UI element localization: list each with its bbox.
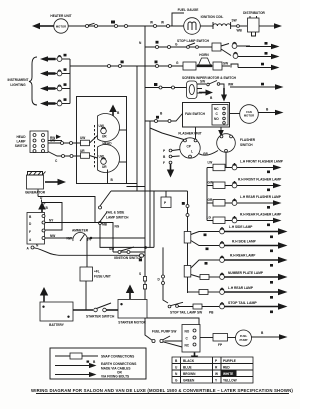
stop tail lamp row <box>168 301 287 315</box>
svg-text:WHITE: WHITE <box>223 372 233 376</box>
fuel pump relay box <box>182 325 200 353</box>
tail and side lamp switch <box>99 191 155 247</box>
svg-text:FLASHER UNIT: FLASHER UNIT <box>178 132 201 136</box>
headlamp connector UW <box>80 135 98 146</box>
svg-text:SWITCH: SWITCH <box>240 143 253 147</box>
svg-text:C: C <box>55 159 58 163</box>
svg-text:F: F <box>163 161 165 165</box>
headlamp lower <box>98 145 127 173</box>
svg-text:SNAP CONNECTIONS: SNAP CONNECTIONS <box>101 355 134 359</box>
svg-text:UW: UW <box>50 139 55 143</box>
svg-text:B: B <box>163 155 166 159</box>
svg-text:A: A <box>27 247 30 251</box>
wire flasher feed bus <box>206 168 208 221</box>
svg-text:BROWN: BROWN <box>183 372 196 376</box>
svg-text:HEATER UNIT: HEATER UNIT <box>50 14 71 18</box>
earth arrow heater <box>32 23 54 29</box>
control box <box>27 213 45 245</box>
svg-text:G: G <box>175 43 178 47</box>
svg-text:UR: UR <box>102 165 107 169</box>
wire switch RW <box>48 135 62 141</box>
svg-text:YELLOW: YELLOW <box>223 379 237 383</box>
svg-text:VIA FIXING BOLTS: VIA FIXING BOLTS <box>101 375 129 379</box>
svg-text:NC: NC <box>185 344 190 348</box>
svg-text:MB: MB <box>102 223 108 227</box>
instrument lighting brace <box>8 57 37 105</box>
svg-text:NO: NO <box>185 330 190 334</box>
headlamp connector UR <box>80 149 98 159</box>
wire heater feed <box>68 21 145 28</box>
wire coil output arrow <box>259 23 282 29</box>
svg-text:AMMETER: AMMETER <box>72 229 89 233</box>
wire V3 <box>144 191 154 249</box>
svg-text:FAN SWITCH: FAN SWITCH <box>185 112 206 116</box>
fuel pump <box>228 330 288 346</box>
wire stop fork <box>221 44 231 56</box>
svg-text:HEAD: HEAD <box>16 135 26 139</box>
fuse F2 <box>184 260 219 277</box>
svg-text:NC: NC <box>214 107 219 111</box>
svg-text:B: B <box>117 111 120 115</box>
svg-text:GW: GW <box>208 181 214 185</box>
horn row <box>137 53 230 70</box>
instrument lamp 2 <box>40 68 70 76</box>
earth arrow headlamp <box>109 105 120 117</box>
svg-text:FUEL PUMP SW: FUEL PUMP SW <box>152 330 176 334</box>
svg-text:W: W <box>215 372 218 376</box>
fuel pump switch <box>152 330 182 348</box>
svg-text:GREEN: GREEN <box>183 379 195 383</box>
flasher terminals P B F <box>163 149 180 165</box>
svg-text:UR: UR <box>80 149 85 153</box>
svg-text:BLACK: BLACK <box>183 359 195 363</box>
svg-text:SW: SW <box>232 19 237 23</box>
connector FP <box>200 334 228 348</box>
dashed loom line <box>94 125 96 168</box>
wire bus V1 <box>145 26 199 340</box>
svg-text:FP: FP <box>218 343 223 347</box>
wire A1 bus <box>27 244 146 262</box>
svg-text:LG: LG <box>207 216 212 220</box>
svg-text:FUSE UNIT: FUSE UNIT <box>94 275 111 279</box>
svg-text:EARTH CONNECTIONS: EARTH CONNECTIONS <box>101 362 136 366</box>
generator <box>25 172 66 195</box>
svg-text:LW: LW <box>208 161 213 165</box>
wire stop lamp feeder <box>158 247 169 303</box>
wire bus V4 <box>136 66 138 191</box>
wire ammeter out <box>87 237 145 267</box>
instrument lamp 3 <box>40 83 70 91</box>
svg-text:D: D <box>158 278 161 282</box>
svg-text:L.H SIDE LAMP: L.H SIDE LAMP <box>229 225 253 229</box>
svg-text:LIGHTING: LIGHTING <box>10 83 26 87</box>
wire gauge feed <box>145 13 184 28</box>
number plate lamp <box>200 271 288 284</box>
svg-text:MOTOR: MOTOR <box>56 25 66 29</box>
svg-text:F: F <box>29 230 31 234</box>
svg-text:MADE VIA CABLES: MADE VIA CABLES <box>101 367 130 371</box>
svg-text:B: B <box>261 331 264 335</box>
svg-text:UW: UW <box>99 155 104 159</box>
svg-text:STOP TAIL LAMP SW: STOP TAIL LAMP SW <box>170 311 202 315</box>
legend box <box>50 348 146 379</box>
svg-text:FLASHER: FLASHER <box>240 138 256 142</box>
svg-text:P: P <box>163 149 166 153</box>
stop lamp A row <box>232 42 279 49</box>
horn output connector <box>231 63 280 71</box>
earth arrow starter <box>126 285 134 300</box>
svg-text:PB: PB <box>209 311 214 315</box>
ignition coil L1 <box>200 15 247 33</box>
fuse on bus V1 <box>139 272 147 289</box>
earth arrow control box <box>38 202 48 212</box>
svg-text:STARTER MOTOR: STARTER MOTOR <box>118 321 146 325</box>
svg-text:L.H REAR LAMP: L.H REAR LAMP <box>228 286 254 290</box>
headlamp housing box <box>77 97 127 184</box>
svg-text:UR: UR <box>102 135 107 139</box>
svg-text:NW: NW <box>50 234 55 238</box>
wire lamp feed bus <box>182 191 189 293</box>
head lamps label <box>101 142 112 151</box>
wire switch UR <box>48 152 81 164</box>
LH rear flasher lamp <box>207 195 282 209</box>
wire earth bus H2 <box>127 184 146 187</box>
wire instrument bus <box>70 59 137 104</box>
svg-text:LAMP: LAMP <box>16 140 26 144</box>
RH front flasher lamp <box>207 178 282 192</box>
svg-text:L: L <box>191 150 193 154</box>
svg-text:W: W <box>161 21 164 25</box>
svg-text:LAMP SWITCH: LAMP SWITCH <box>106 216 129 220</box>
svg-text:B: B <box>210 96 213 100</box>
starter cable and switch <box>73 303 118 319</box>
svg-text:B: B <box>160 112 163 116</box>
heater unit motor M1 <box>50 14 71 33</box>
svg-text:GENERATOR: GENERATOR <box>25 191 46 195</box>
svg-text:SW: SW <box>109 247 114 251</box>
earth arrow flasher <box>167 164 174 178</box>
svg-text:BATTERY: BATTERY <box>49 323 65 327</box>
stop lamp B row <box>233 52 279 59</box>
svg-text:PURPLE: PURPLE <box>223 359 236 363</box>
svg-text:NG: NG <box>115 225 120 229</box>
RH rear lamp <box>205 254 288 267</box>
wire switch UW <box>48 139 81 145</box>
svg-text:STOP TAIL LAMP: STOP TAIL LAMP <box>228 301 257 305</box>
RH rear flasher lamp <box>207 213 283 227</box>
svg-text:UW: UW <box>80 136 85 140</box>
svg-text:+FL: +FL <box>94 270 100 274</box>
svg-text:SCREEN WIPER MOTOR & SWITCH: SCREEN WIPER MOTOR & SWITCH <box>182 76 237 80</box>
ammeter <box>67 229 92 242</box>
horn <box>199 58 211 65</box>
fan thermostat box <box>183 103 230 128</box>
svg-text:B: B <box>266 108 269 112</box>
fan switch row <box>145 112 206 123</box>
svg-text:INSTRUMENT: INSTRUMENT <box>8 78 29 82</box>
svg-text:G: G <box>176 61 179 65</box>
wire generator D <box>38 190 95 223</box>
earth arrow fuel relay <box>191 353 198 364</box>
svg-text:R.H SIDE LAMP: R.H SIDE LAMP <box>232 240 257 244</box>
svg-text:W: W <box>150 21 153 25</box>
LH rear lamp <box>188 286 288 299</box>
wire headlamp earth <box>108 170 114 184</box>
svg-text:IGNITION SWITCH: IGNITION SWITCH <box>114 256 142 260</box>
svg-text:SW: SW <box>200 80 205 84</box>
wire NY <box>45 219 95 223</box>
svg-text:R.H FRONT FLASHER LAMP: R.H FRONT FLASHER LAMP <box>238 178 282 182</box>
svg-text:RED: RED <box>223 366 230 370</box>
svg-text:DISTRIBUTOR: DISTRIBUTOR <box>243 11 265 15</box>
wiper feed arrow <box>228 83 284 90</box>
fan motor <box>230 105 284 124</box>
svg-text:FUEL GAUGE: FUEL GAUGE <box>178 8 199 12</box>
distributor <box>243 11 265 36</box>
fuse unit <box>80 267 111 310</box>
earth arrow wiper right <box>199 90 213 101</box>
RH side lamp <box>206 240 288 253</box>
caption <box>31 388 293 394</box>
wire feed bus H3 <box>111 190 188 192</box>
screen wiper motor and switch <box>145 76 237 99</box>
svg-text:N: N <box>139 41 142 45</box>
instrument lamp 1 <box>40 54 70 62</box>
svg-text:NO: NO <box>214 117 219 121</box>
earth arrow battery <box>40 287 48 302</box>
svg-text:PUMP: PUMP <box>239 338 247 342</box>
svg-text:WB: WB <box>237 29 243 33</box>
head lamp switch block <box>15 131 48 153</box>
svg-text:HORN: HORN <box>199 53 209 57</box>
flasher switch <box>217 134 256 168</box>
ignition switch <box>109 247 145 260</box>
svg-text:B: B <box>46 206 49 210</box>
svg-text:S: S <box>139 272 141 276</box>
starter motor <box>118 300 147 325</box>
svg-text:L.H REAR FLASHER LAMP: L.H REAR FLASHER LAMP <box>240 195 282 199</box>
svg-text:WIRING DIAGRAM FOR SALOON AND: WIRING DIAGRAM FOR SALOON AND VAN DE LUX… <box>31 388 293 393</box>
wire NG <box>95 223 120 253</box>
svg-text:NUMBER PLATE LAMP: NUMBER PLATE LAMP <box>228 271 264 275</box>
svg-text:NY: NY <box>49 219 54 223</box>
svg-text:MOTOR: MOTOR <box>244 114 254 118</box>
svg-text:STOP LAMP SWITCH: STOP LAMP SWITCH <box>177 39 210 43</box>
svg-text:UW: UW <box>99 124 104 128</box>
node n <box>139 41 142 45</box>
svg-text:GR: GR <box>208 198 213 202</box>
svg-text:STARTER SWITCH: STARTER SWITCH <box>86 315 115 319</box>
colour code table <box>172 357 253 383</box>
LH side lamp <box>204 225 288 238</box>
wire A to ammeter <box>45 234 73 238</box>
instrument lamp 4 <box>40 98 70 106</box>
svg-text:NW: NW <box>67 237 72 241</box>
svg-text:R.H REAR FLASHER LAMP: R.H REAR FLASHER LAMP <box>240 213 282 217</box>
stop lamp switch row <box>145 39 221 51</box>
earth arrow fan box <box>218 127 224 137</box>
earth arrow wiper down <box>221 88 227 102</box>
svg-text:TAIL & SIDE: TAIL & SIDE <box>106 211 124 215</box>
svg-text:IGNITION COIL: IGNITION COIL <box>201 15 224 19</box>
svg-text:WR: WR <box>228 83 234 87</box>
wire flasher to switch <box>199 151 219 157</box>
fuel gauge G1 <box>178 8 201 34</box>
svg-text:B: B <box>93 360 96 364</box>
wire generator F <box>42 200 63 231</box>
svg-text:SW: SW <box>223 62 228 66</box>
connector P <box>161 191 171 208</box>
svg-text:B: B <box>111 178 114 182</box>
svg-text:BLUE: BLUE <box>183 366 192 370</box>
fuse F1 <box>184 232 219 246</box>
svg-text:R.H REAR LAMP: R.H REAR LAMP <box>230 254 256 258</box>
svg-text:SWITCH: SWITCH <box>15 144 28 148</box>
wire V2 <box>149 121 151 247</box>
flasher unit <box>150 127 202 158</box>
svg-text:L.H FRONT FLASHER LAMP: L.H FRONT FLASHER LAMP <box>240 160 284 164</box>
battery <box>40 302 73 327</box>
headlamp upper <box>98 114 127 142</box>
LH front flasher lamp <box>207 160 284 174</box>
